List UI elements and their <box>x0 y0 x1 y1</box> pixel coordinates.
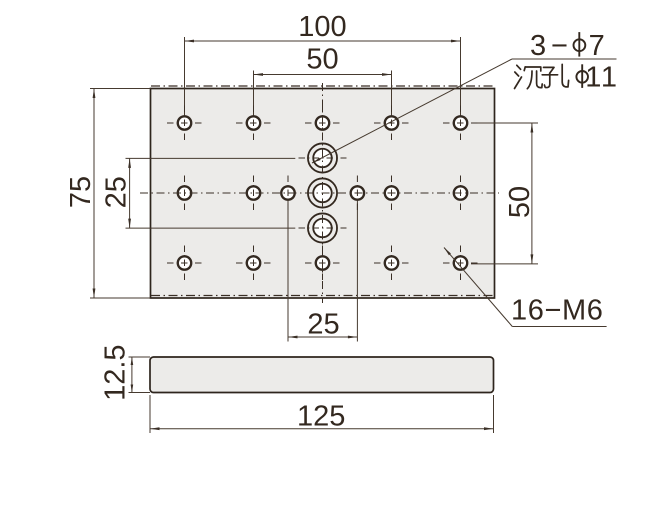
svg-text:−: − <box>551 30 568 62</box>
svg-text:100: 100 <box>298 11 346 43</box>
svg-text:75: 75 <box>65 176 97 208</box>
svg-text:12.5: 12.5 <box>99 344 131 400</box>
svg-text:16−M6: 16−M6 <box>511 295 603 327</box>
svg-text:11: 11 <box>585 61 618 93</box>
svg-text:50: 50 <box>306 44 338 76</box>
svg-text:25: 25 <box>307 309 339 341</box>
svg-text:50: 50 <box>504 186 536 218</box>
svg-text:125: 125 <box>297 401 345 433</box>
svg-text:3: 3 <box>530 30 546 62</box>
svg-text:7: 7 <box>589 30 605 62</box>
svg-text:25: 25 <box>101 176 133 208</box>
